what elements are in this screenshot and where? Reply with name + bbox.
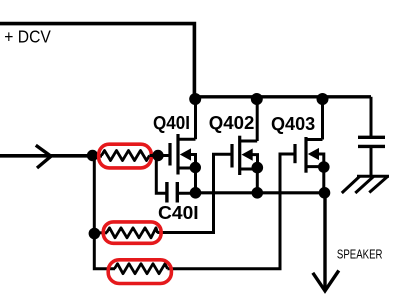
node Q403 source [318,161,330,173]
node drain bus / Q402 drain [251,93,263,105]
node R2 left [89,228,101,240]
node Q402 source [251,162,263,174]
speaker arrow [313,271,339,291]
wire R2 left lead [94,231,107,234]
wire capacitor to ground [370,148,373,176]
svg-text:SPEAKER: SPEAKER [337,247,383,262]
resistor R2 [107,228,158,238]
node source bus / Q403 / speaker [319,187,331,199]
resistor R3 [115,264,168,274]
node drain bus / Q403 drain [317,93,329,105]
wire Q402 gate to R2 [157,154,232,232]
wire +DCV top rail [0,24,194,99]
wire bus to filter capacitor [370,97,373,136]
node drain bus / Q401 drain [189,93,201,105]
wire speaker output [323,193,326,290]
highlight circle around R1 [99,144,152,168]
wire R1 to Q401 gate [150,154,169,157]
wire C401 to source bus [177,192,195,195]
wire Q403 gate to R3 [167,154,294,269]
node R1 right / Q401 gate [152,150,163,161]
capacitor C2 (filter, unlabeled) [358,137,385,146]
node Q401 source [190,162,201,173]
svg-text:Q403: Q403 [271,114,315,134]
svg-text:C40I: C40I [158,203,199,223]
node source bus / Q402 [251,187,263,199]
wire input signal [0,154,102,158]
wire Q403 source down [322,167,325,193]
wire input node down to R2/R3 [94,156,115,269]
wire Q402 drain up [256,97,259,141]
capacitor C401 [167,182,177,203]
wire Q403 drain up [321,97,324,140]
wire Q401 source down [194,168,197,193]
wire drain bus [195,95,372,98]
ground [342,176,389,193]
highlight circle around R3 [108,260,171,284]
wire Q402 source down [256,168,259,193]
svg-text:Q402: Q402 [209,113,255,133]
wire source bus [196,191,325,194]
transistor Q403 [295,137,324,173]
transistor Q402 [232,136,258,175]
transistor Q401 [170,134,196,175]
node source bus / Q401 [190,187,202,199]
wire Q401 drain up [194,97,197,139]
resistor R1 [102,151,150,161]
input arrow [36,145,51,168]
highlight circle around R2 [103,222,161,243]
svg-text:+ DCV: + DCV [4,27,51,47]
wire Q401 gate down to C401 [156,156,166,194]
svg-text:Q40I: Q40I [153,113,190,133]
node input / R1 left [87,150,98,161]
